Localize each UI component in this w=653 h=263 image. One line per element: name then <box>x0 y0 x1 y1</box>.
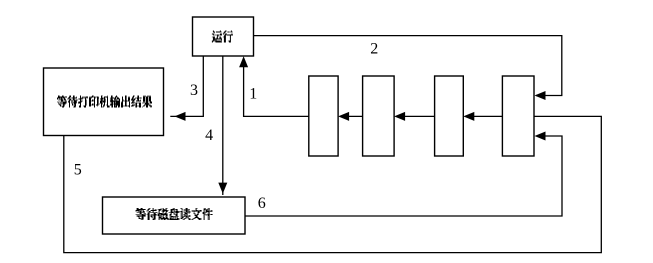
svg-text:6: 6 <box>258 195 266 212</box>
svg-text:2: 2 <box>370 41 378 58</box>
svg-text:5: 5 <box>74 162 82 179</box>
svg-text:1: 1 <box>249 85 257 102</box>
svg-text:3: 3 <box>190 82 198 99</box>
svg-text:4: 4 <box>205 127 213 144</box>
